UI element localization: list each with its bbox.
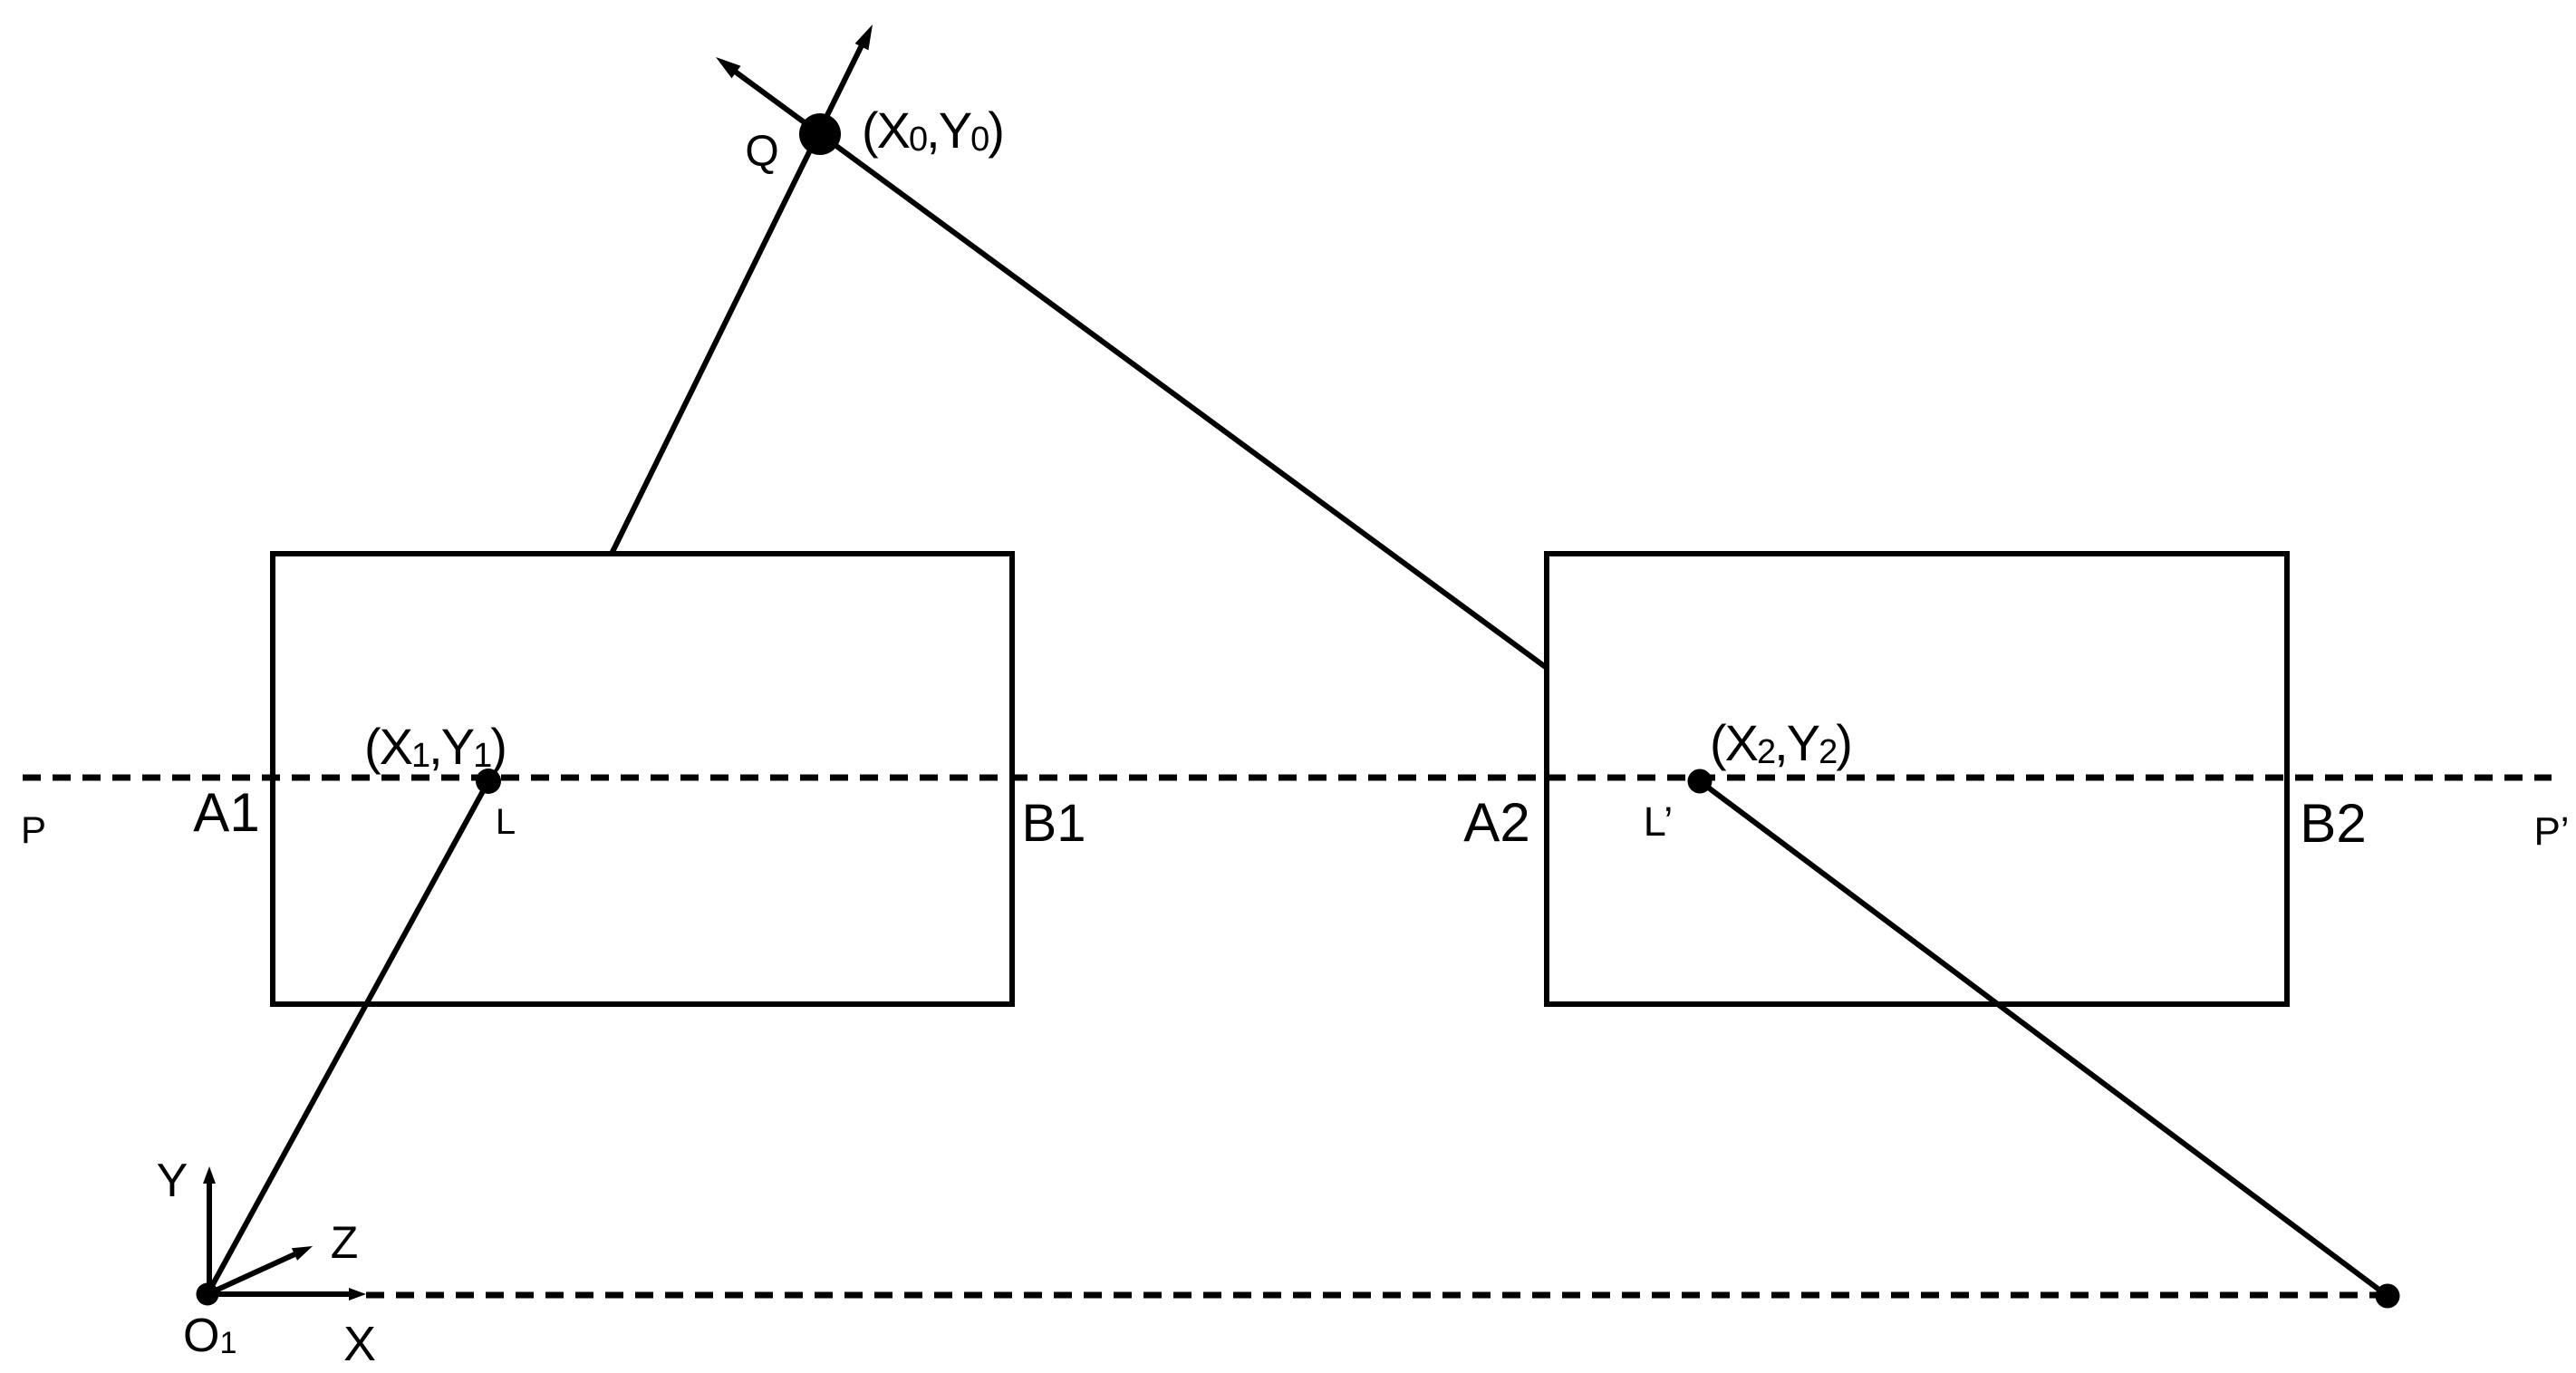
svg-text:B2: B2 bbox=[2300, 793, 2366, 854]
svg-text:Y: Y bbox=[157, 1155, 188, 1207]
svg-text:Z: Z bbox=[331, 1217, 359, 1268]
svg-text:L’: L’ bbox=[1644, 798, 1674, 845]
svg-text:P’: P’ bbox=[2533, 809, 2569, 854]
svg-text:A1: A1 bbox=[193, 782, 259, 843]
svg-text:P: P bbox=[21, 808, 46, 851]
svg-text:B1: B1 bbox=[1022, 794, 1086, 853]
svg-text:X: X bbox=[343, 1317, 376, 1371]
svg-text:Q: Q bbox=[745, 128, 778, 176]
svg-text:A2: A2 bbox=[1463, 792, 1529, 853]
svg-text:L: L bbox=[496, 802, 516, 842]
